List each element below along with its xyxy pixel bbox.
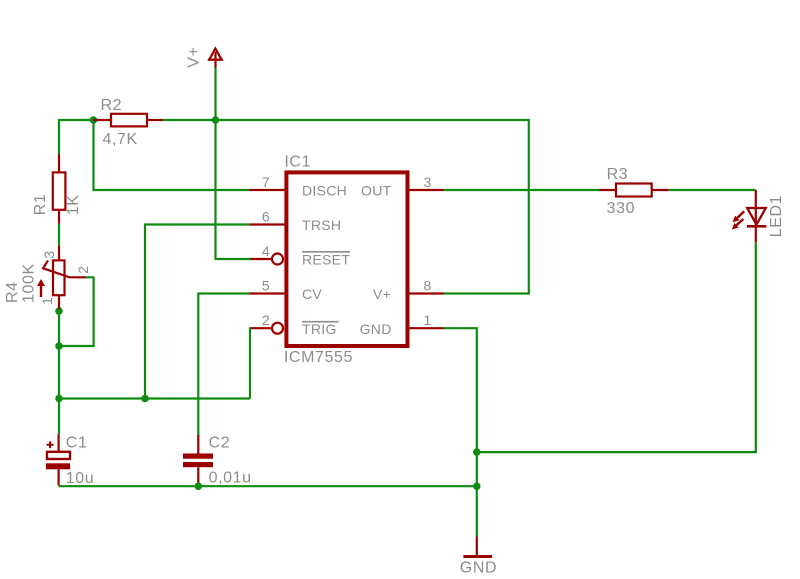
svg-text:R2: R2	[101, 97, 123, 114]
svg-text:C2: C2	[209, 435, 231, 452]
svg-text:TRIG: TRIG	[302, 321, 337, 337]
svg-text:GND: GND	[360, 321, 392, 337]
svg-text:CV: CV	[302, 286, 322, 302]
svg-text:2: 2	[75, 266, 91, 274]
svg-text:OUT: OUT	[361, 183, 392, 199]
svg-text:100K: 100K	[21, 263, 38, 303]
svg-text:DISCH: DISCH	[302, 183, 347, 199]
svg-text:3: 3	[41, 251, 57, 259]
svg-text:6: 6	[262, 209, 270, 225]
svg-text:1: 1	[39, 297, 55, 305]
svg-text:10u: 10u	[66, 470, 95, 487]
svg-text:R1: R1	[32, 194, 49, 216]
svg-text:4: 4	[262, 243, 270, 259]
svg-text:4,7K: 4,7K	[103, 131, 138, 148]
svg-text:8: 8	[424, 278, 432, 294]
svg-text:R3: R3	[607, 166, 629, 183]
svg-text:1K: 1K	[65, 195, 82, 216]
svg-text:LED1: LED1	[768, 195, 785, 237]
svg-text:GND: GND	[460, 559, 497, 576]
svg-text:2: 2	[262, 312, 270, 328]
svg-text:C1: C1	[66, 435, 88, 452]
svg-text:R4: R4	[4, 281, 21, 303]
svg-text:V+: V+	[373, 286, 391, 302]
svg-text:TRSH: TRSH	[302, 217, 341, 233]
svg-text:V+: V+	[185, 46, 202, 67]
svg-text:7: 7	[262, 174, 270, 190]
svg-text:ICM7555: ICM7555	[284, 349, 353, 366]
svg-text:IC1: IC1	[284, 153, 311, 170]
svg-text:3: 3	[424, 174, 432, 190]
svg-text:RESET: RESET	[302, 251, 350, 267]
svg-text:330: 330	[607, 200, 636, 217]
svg-text:5: 5	[262, 278, 270, 294]
svg-text:0,01u: 0,01u	[209, 469, 252, 486]
svg-text:1: 1	[424, 312, 432, 328]
